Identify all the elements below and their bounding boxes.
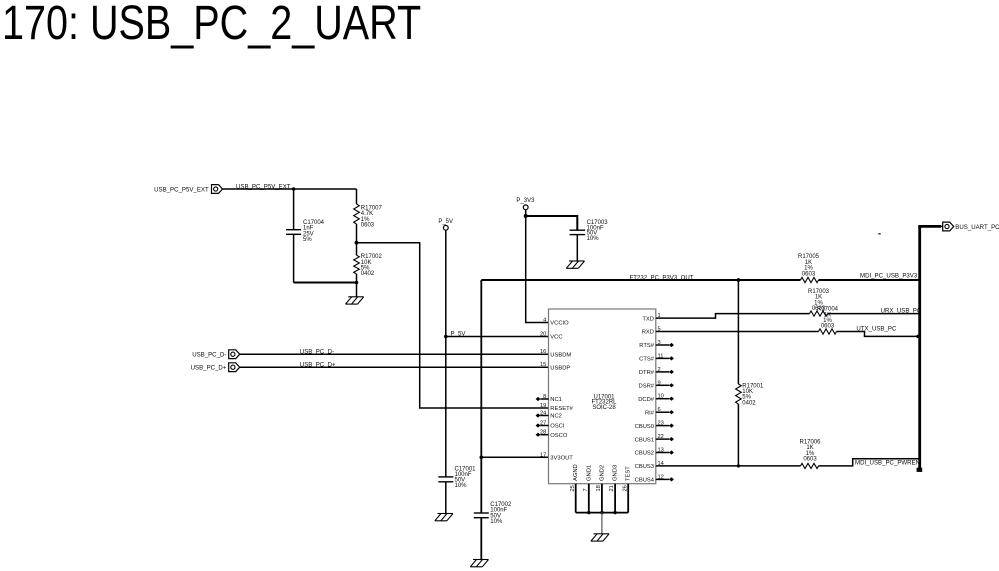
resistor R17002: [354, 243, 360, 283]
pin 1 TXD: [642, 313, 660, 322]
svg-text:AGND: AGND: [573, 464, 579, 481]
pin 7 GND1: [583, 465, 592, 492]
wire FT232_PC_P3V3_OUT horizontal: [481, 279, 800, 281]
svg-text:CBUS2: CBUS2: [635, 451, 654, 457]
wire P_3V3 stub: [525, 210, 527, 216]
bus end cap: [917, 468, 923, 472]
wire P_5V vertical: [445, 230, 447, 477]
ground C17001: [435, 514, 453, 521]
junction GND3: [613, 511, 616, 514]
wire TXD: [656, 314, 810, 319]
wire P_3V3 to VCCIO: [526, 216, 549, 323]
wire GND1 stub: [588, 484, 590, 513]
power symbol P_3V3: [516, 198, 535, 210]
pin 5 RXD: [642, 327, 661, 336]
pin 6 RI#: [645, 407, 674, 416]
power symbol P_5V: [438, 219, 453, 230]
wire USB_PC_P5V_EXT: [223, 188, 294, 190]
svg-text:TXD: TXD: [642, 316, 654, 322]
svg-text:R170061K1%0603: R170061K1%0603: [799, 439, 821, 462]
pin 21 GND3: [609, 465, 618, 492]
svg-text:19: 19: [540, 403, 546, 409]
wire RXD: [656, 331, 819, 333]
junction divider node: [355, 241, 359, 245]
junction P_3V3: [524, 214, 528, 218]
resistor R17001: [736, 384, 742, 404]
svg-text:USB_PC_D-: USB_PC_D-: [192, 351, 226, 358]
svg-text:RXD: RXD: [642, 330, 654, 336]
junction 3V3OUT tap: [480, 456, 484, 460]
svg-text:VCC: VCC: [550, 335, 562, 341]
svg-text:R1700210K5%0402: R1700210K5%0402: [361, 254, 383, 277]
svg-text:P_5V: P_5V: [438, 219, 453, 225]
pin 26 TEST: [622, 466, 631, 492]
pin 10 DCD#: [638, 394, 674, 403]
port USB_PC_D-: [192, 350, 240, 359]
port USB_PC_D+: [191, 363, 240, 372]
pin 16 USBDM: [540, 349, 571, 358]
bus BUS_UART_PC top arm: [918, 225, 941, 228]
title 170: USB_PC_2_UART: [2, 0, 421, 48]
svg-text:USB_PC_P5V_EXT: USB_PC_P5V_EXT: [154, 186, 209, 193]
wire MDI_PC_USB_P3V3: [819, 279, 920, 281]
svg-text:17: 17: [540, 452, 546, 458]
svg-text:OSCO: OSCO: [550, 433, 568, 439]
junction GND2: [600, 511, 603, 514]
svg-text:DTR#: DTR#: [639, 370, 655, 376]
svg-text:RESET#: RESET#: [550, 406, 573, 412]
svg-text:GND2: GND2: [599, 465, 605, 481]
bus BUS_UART_PC vertical: [918, 226, 921, 470]
pin 11 CTS#: [639, 353, 674, 362]
junction R17001 top: [737, 278, 741, 282]
svg-text:15: 15: [540, 362, 546, 368]
capacitor C17001: [438, 477, 453, 514]
svg-text:USB_PC_D+: USB_PC_D+: [191, 364, 227, 371]
wire UTX_USB_PC: [837, 332, 920, 337]
svg-text:USBDM: USBDM: [550, 352, 571, 358]
wire TEST stub: [627, 484, 629, 513]
wire MDI_USB_PC_PWREN: [819, 459, 920, 466]
IC U17001 FT232RL body: [549, 309, 656, 484]
port BUS_UART_PC: [941, 222, 999, 231]
pin 12 CBUS4: [635, 474, 674, 483]
svg-text:UTX_USB_PC: UTX_USB_PC: [856, 325, 897, 332]
svg-text:USBDP: USBDP: [550, 365, 570, 371]
svg-text:USB_PC_D-: USB_PC_D-: [300, 348, 334, 355]
pin 28 OSCO: [536, 430, 568, 439]
junction GND1: [587, 511, 590, 514]
capacitor C17002: [474, 513, 489, 560]
wire USB_PC_D-: [240, 353, 549, 355]
svg-text:R170041K1%0603: R170041K1%0603: [817, 307, 839, 330]
svg-text:DCD#: DCD#: [638, 397, 655, 403]
wire to IC ground: [601, 513, 603, 534]
wire FT232_PC_P3V3_OUT vertical: [480, 280, 482, 513]
pin 15 USBDP: [540, 362, 570, 371]
svg-text:URX_USB_PC: URX_USB_PC: [881, 308, 922, 315]
svg-text:20: 20: [540, 332, 546, 338]
svg-text:4: 4: [543, 318, 546, 324]
wire GND3 stub: [614, 484, 616, 513]
pin 18 GND2: [596, 465, 605, 492]
pin 24 NC2: [536, 411, 562, 420]
svg-text:CBUS4: CBUS4: [635, 478, 655, 484]
wire ground stub: [356, 283, 358, 297]
pin 3 RTS#: [639, 340, 674, 349]
pin 25 AGND: [570, 464, 579, 491]
svg-text:C17003100nF50V10%: C17003100nF50V10%: [587, 220, 609, 242]
pin 4 VCCIO: [543, 318, 569, 327]
svg-text:U17001FT232RLSOIC-28: U17001FT232RLSOIC-28: [591, 394, 617, 411]
capacitor C17003: [570, 230, 586, 261]
svg-text:TEST: TEST: [626, 466, 632, 481]
svg-text:NC1: NC1: [550, 397, 562, 403]
svg-text:FT232_PC_P3V3_OUT: FT232_PC_P3V3_OUT: [630, 274, 694, 281]
wire R17001 lower: [737, 404, 739, 466]
pin 23 CBUS0: [635, 421, 674, 430]
wire R17001 upper: [737, 280, 739, 384]
wire URX_USB_PC: [828, 313, 920, 315]
ground IC: [591, 534, 609, 541]
svg-text:USB_PC_D+: USB_PC_D+: [300, 362, 336, 369]
pin 9 DSR#: [639, 380, 674, 389]
wire to R17007: [294, 188, 357, 190]
svg-text:CBUS0: CBUS0: [635, 424, 654, 430]
svg-text:C170041nF25V5%: C170041nF25V5%: [303, 220, 325, 243]
svg-text:VCCIO: VCCIO: [550, 321, 569, 327]
svg-text:CTS#: CTS#: [639, 357, 655, 363]
junction at C17004 tap: [292, 187, 296, 191]
svg-text:DSR#: DSR#: [639, 384, 655, 390]
pin 14 CBUS3: [635, 461, 664, 470]
svg-text:P_3V3: P_3V3: [516, 198, 535, 204]
svg-text:USB_PC_P5V_EXT: USB_PC_P5V_EXT: [236, 183, 291, 190]
junction P_5V at VCC: [444, 335, 448, 339]
capacitor C17004: [286, 189, 301, 283]
svg-text:GND3: GND3: [613, 465, 619, 481]
port USB_PC_P5V_EXT: [154, 185, 222, 194]
junction divider bottom: [355, 281, 359, 285]
pin 17 3V3OUT: [540, 452, 573, 461]
svg-text:NC2: NC2: [550, 414, 562, 420]
svg-text:C17001100nF50V10%: C17001100nF50V10%: [455, 466, 477, 489]
ground divider: [346, 297, 364, 304]
pin 8 NC1: [536, 394, 562, 403]
svg-text:3V3OUT: 3V3OUT: [550, 456, 573, 462]
svg-text:OSCI: OSCI: [550, 424, 565, 430]
resistor R17006: [801, 463, 819, 468]
resistor R17005: [801, 277, 819, 282]
pin 22 CBUS1: [635, 434, 674, 443]
wire USB_PC_D+: [240, 366, 549, 368]
junction R17001 bottom: [737, 464, 740, 467]
svg-text:C17002100nF50V10%: C17002100nF50V10%: [490, 502, 512, 525]
wire AGND stub: [575, 484, 577, 513]
pin 20 VCC: [540, 332, 563, 341]
pin 27 OSCI: [536, 421, 565, 430]
wire ground bus under IC: [576, 512, 629, 514]
svg-text:R1700110K5%0402: R1700110K5%0402: [742, 383, 764, 406]
wire CBUS3: [656, 465, 801, 467]
resistor R17004: [819, 329, 837, 334]
svg-text:GND1: GND1: [586, 465, 592, 481]
wire divider bottom: [294, 282, 357, 284]
svg-text:CBUS1: CBUS1: [635, 437, 654, 443]
wire P_3V3 to C17003: [526, 216, 578, 230]
svg-text:MDI_USB_PC_PWREN: MDI_USB_PC_PWREN: [855, 459, 920, 466]
svg-text:BUS_UART_PC: BUS_UART_PC: [955, 224, 999, 231]
resistor R17007: [354, 189, 360, 243]
wire divider node to RESET#: [357, 243, 549, 408]
svg-text:R170051K1%0603: R170051K1%0603: [798, 254, 820, 277]
pin 2 DTR#: [639, 367, 674, 376]
wire VCC: [446, 336, 549, 338]
pin 13 CBUS2: [635, 448, 674, 457]
svg-text:R170074.7K1%0603: R170074.7K1%0603: [361, 206, 383, 229]
ground C17002: [470, 560, 488, 567]
resistor R17003: [810, 311, 828, 316]
wire GND2 stub: [601, 484, 603, 513]
junction UTX at bus: [916, 335, 919, 338]
ground C17003: [566, 261, 584, 268]
pin 19 RESET#: [540, 403, 574, 412]
stray mark: [878, 233, 880, 235]
svg-text:RI#: RI#: [645, 410, 655, 416]
svg-text:RTS#: RTS#: [639, 343, 654, 349]
wire 3V3OUT: [481, 456, 548, 458]
svg-text:CBUS3: CBUS3: [635, 464, 654, 470]
svg-text:16: 16: [540, 349, 546, 355]
svg-text:MDI_PC_USB_P3V3: MDI_PC_USB_P3V3: [860, 272, 918, 279]
